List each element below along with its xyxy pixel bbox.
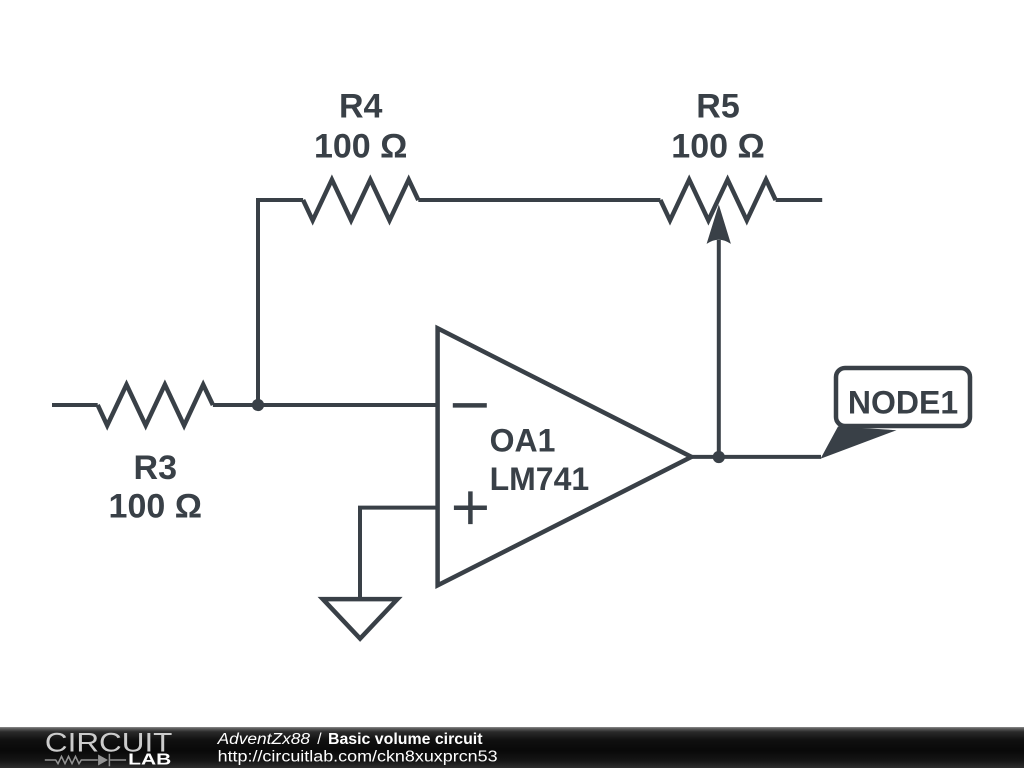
wiper arrow of R5 (707, 205, 731, 244)
op-amp minus sign (453, 403, 487, 408)
wire R3 left open stub (52, 403, 98, 407)
resistor R3 (98, 385, 213, 426)
svg-text:AdventZx88: AdventZx88 (216, 731, 310, 748)
wire R5 right open stub (776, 198, 823, 202)
svg-text:Basic volume circuit: Basic volume circuit (328, 731, 483, 748)
junction node dot at output (713, 451, 725, 463)
svg-text:OA1: OA1 (490, 423, 556, 459)
wire node A up to R4 left (258, 200, 303, 405)
svg-text:100 Ω: 100 Ω (314, 128, 407, 166)
svg-text:http://circuitlab.com/ckn8xuxp: http://circuitlab.com/ckn8xuxprcn53 (218, 749, 498, 766)
ground symbol (323, 599, 398, 639)
svg-text:100 Ω: 100 Ω (109, 488, 202, 526)
svg-text:R3: R3 (134, 449, 177, 487)
potentiometer R5 body (660, 180, 775, 221)
logo diode triangle (98, 755, 108, 766)
logo resistor squiggle (45, 756, 98, 763)
svg-text:/: / (317, 731, 322, 748)
wire R4 right to R5 left (418, 198, 660, 202)
svg-text:LAB: LAB (128, 752, 171, 768)
node flag NODE1 tail (821, 427, 897, 459)
wire op-amp output to NODE1 (691, 455, 821, 459)
svg-text:R4: R4 (339, 88, 383, 126)
svg-text:R5: R5 (696, 88, 739, 126)
op-amp plus sign (454, 491, 487, 524)
wire R5 wiper vertical (717, 240, 721, 457)
wire op-amp noninverting input to ground (360, 508, 438, 599)
svg-text:100 Ω: 100 Ω (671, 128, 764, 166)
node flag NODE1 box (836, 368, 970, 426)
resistor R4 (303, 180, 418, 221)
svg-text:NODE1: NODE1 (848, 384, 958, 420)
logo diode bar and wire (109, 754, 126, 766)
op-amp U1 triangle (438, 328, 692, 585)
svg-text:LM741: LM741 (490, 461, 590, 497)
wire R3 to op-amp inverting input (213, 403, 438, 407)
junction node dot at inverting input (252, 399, 264, 411)
